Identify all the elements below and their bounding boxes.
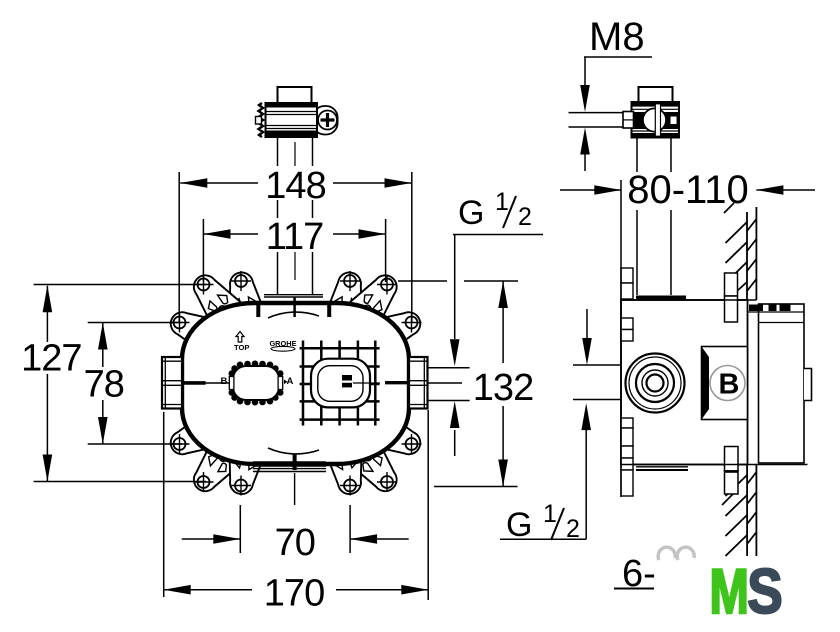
svg-text:117: 117: [266, 216, 324, 258]
cartridge block B: [702, 347, 748, 420]
threaded rod M8: [569, 112, 625, 114]
lug diagonal upper right: [367, 302, 427, 356]
G 1/2 label side: [500, 309, 592, 544]
screw top inner right: [340, 271, 360, 291]
screw bottom inner right: [340, 476, 360, 496]
svg-text:M: M: [710, 556, 749, 626]
svg-text:G: G: [506, 506, 532, 544]
bottom flat thick edge: [253, 461, 326, 467]
wall section upper: [724, 203, 756, 300]
port leader lines: [573, 364, 621, 366]
lug bottom inner right: [325, 442, 370, 497]
grid plate: [300, 341, 380, 426]
top bridge double line: [264, 294, 323, 296]
escutcheon plate behind wall: [759, 304, 805, 463]
dimension 132: [398, 281, 533, 487]
lug top inner left: [221, 269, 266, 324]
wall section lower: [722, 465, 756, 557]
MS watermark logo: [710, 556, 783, 627]
dimension 117: [203, 216, 385, 282]
dimension 127: [21, 285, 206, 482]
screw diagonal upper left: [170, 313, 190, 333]
side view in wall: [569, 87, 812, 556]
svg-text:80-110: 80-110: [627, 168, 749, 212]
toothed cartridge opening: [229, 361, 284, 406]
bottom long line: [621, 464, 808, 466]
clamp top bracket: [278, 87, 312, 103]
screw diagonal lower right: [402, 434, 422, 454]
dimension 170: [164, 410, 429, 615]
svg-text:G: G: [458, 194, 484, 232]
svg-text:A: A: [287, 376, 294, 387]
screw top inner left: [231, 271, 251, 291]
vertical centerline dashes: [294, 473, 296, 505]
svg-text:70: 70: [275, 522, 315, 564]
hex nut: [623, 112, 634, 129]
outlet port circles: [626, 354, 685, 413]
horizontal centerline segments: [183, 381, 206, 385]
svg-text:127: 127: [21, 338, 81, 380]
svg-text:M8: M8: [589, 15, 645, 59]
screw diagonal lower left: [170, 434, 190, 454]
body edge tick marks: [256, 305, 260, 317]
top thick band: [636, 296, 686, 301]
dimension 80-110: [560, 168, 815, 497]
dimension 148: [179, 165, 412, 322]
lug top outer left: [184, 267, 243, 329]
front port extension lines: [428, 367, 470, 369]
inner function-unit arc top: [268, 312, 319, 318]
screw bottom outer right: [377, 472, 397, 492]
cartridge side tabs: [229, 377, 234, 390]
lug top outer right: [347, 267, 406, 329]
grid opening inner: [318, 366, 363, 402]
svg-text:B: B: [719, 369, 740, 401]
lug diagonal upper left: [164, 302, 224, 356]
screw top outer left: [194, 275, 214, 295]
top line to wall: [621, 299, 756, 301]
center dashes: [294, 142, 296, 166]
side clamp body: [632, 102, 680, 138]
right port boss: [409, 357, 428, 409]
lug top inner right: [325, 269, 370, 324]
clamp screw lobe: [313, 106, 338, 135]
lug bottom outer right: [347, 438, 406, 500]
screw bottom outer left: [194, 472, 214, 492]
opening center marks: [342, 375, 352, 381]
left port boss: [162, 357, 182, 409]
lug diagonal lower left: [164, 411, 224, 465]
inner function-unit arc bottom: [268, 448, 319, 454]
clamp serrated end: [259, 103, 264, 137]
plaster guard blocks lower right: [725, 447, 739, 472]
bottom bridge double line: [253, 468, 326, 470]
side clamp top bracket: [639, 87, 673, 102]
lug bottom outer left: [184, 438, 243, 500]
svg-text:TOP: TOP: [234, 343, 249, 352]
left face tabs: [621, 268, 633, 496]
grid opening outer: [311, 359, 370, 408]
TOP arrow: [236, 332, 244, 343]
pipes down from clamp: [636, 138, 638, 172]
lug diagonal lower right: [367, 411, 427, 465]
svg-text:148: 148: [265, 165, 325, 207]
escutcheon notch: [804, 369, 812, 401]
G 1/2 label front: [450, 188, 543, 456]
clamp body: [266, 103, 318, 137]
svg-text:S: S: [747, 557, 783, 627]
screw bottom inner left: [231, 476, 251, 496]
part number 6- with underline: [614, 547, 694, 595]
svg-text:2: 2: [518, 203, 532, 231]
front view rough-in body: [162, 267, 462, 505]
dimension 70: [182, 505, 409, 564]
screw diagonal upper right: [402, 313, 422, 333]
escutcheon top black marks: [749, 305, 763, 312]
svg-text:78: 78: [84, 363, 124, 405]
dimension 78: [84, 323, 182, 445]
svg-text:1: 1: [495, 188, 509, 216]
body oval outline: [182, 303, 409, 464]
svg-text:132: 132: [473, 367, 533, 409]
front clamp fitting at top: [256, 87, 338, 294]
screw top outer right: [377, 275, 397, 295]
lug bottom inner left: [221, 442, 266, 497]
svg-text:B: B: [221, 376, 228, 387]
svg-text:1: 1: [543, 500, 557, 528]
plaster guard blocks upper right: [725, 273, 738, 296]
side body box: [621, 300, 748, 465]
dimension M8: [580, 15, 652, 171]
supply pipe lines: [277, 137, 279, 166]
bottom rail double line: [636, 466, 688, 468]
svg-text:170: 170: [264, 573, 324, 615]
